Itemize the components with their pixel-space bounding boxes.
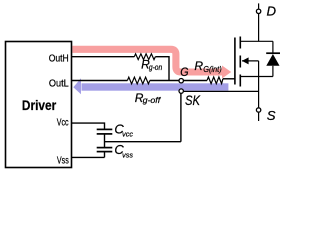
wire OutL <box>72 80 128 82</box>
capacitor C_vcc <box>97 128 113 130</box>
turn-on path arrowhead <box>222 66 231 79</box>
svg-text:g-on: g-on <box>149 63 163 72</box>
terminal D <box>256 9 260 13</box>
wire OutL to node G <box>150 80 207 82</box>
svg-text:vss: vss <box>122 150 133 159</box>
MOSFET channel segment middle <box>239 56 241 68</box>
MOSFET body arrow <box>242 57 249 64</box>
source kelvin wire <box>184 90 259 92</box>
wire junction vertical <box>168 56 170 81</box>
svg-text:Driver: Driver <box>22 97 57 113</box>
wire Vss <box>72 156 105 158</box>
body diode anode vertical <box>272 66 274 77</box>
wire drain stub above terminal <box>258 3 260 8</box>
wire C_vcc to midpoint <box>104 134 106 147</box>
svg-text:vcc: vcc <box>122 130 133 139</box>
svg-text:G(int): G(int) <box>203 65 222 74</box>
MOSFET gate bar <box>234 38 236 85</box>
body diode cathode bar <box>266 52 280 54</box>
node SK <box>179 89 183 93</box>
svg-text:OutH: OutH <box>49 54 69 65</box>
svg-text:D: D <box>267 4 277 19</box>
wire source stub below terminal <box>258 113 260 121</box>
node G <box>179 79 183 83</box>
MOSFET channel segment bottom <box>239 75 241 87</box>
wire C_vss to Vss <box>104 152 106 157</box>
wire gate lead <box>223 78 235 80</box>
capacitor C_vss <box>97 147 113 149</box>
MOSFET source bus <box>240 76 273 78</box>
resistor R_g-on <box>134 54 155 60</box>
terminal S <box>256 108 260 112</box>
wire source vertical <box>258 61 260 108</box>
turn-off gate current path (blue highlight) <box>82 83 229 90</box>
svg-text:G: G <box>180 65 188 79</box>
turn-off path arrowhead <box>73 78 81 94</box>
svg-text:Vcc: Vcc <box>57 117 69 128</box>
svg-text:SK: SK <box>185 92 201 108</box>
wire OutH <box>72 56 135 58</box>
MOSFET channel segment top <box>239 37 241 49</box>
svg-text:Vss: Vss <box>57 155 69 166</box>
wire Vcc <box>72 123 105 129</box>
resistor R_G(int) <box>207 77 223 84</box>
MOSFET drain bus <box>240 40 273 42</box>
body diode triangle <box>266 54 279 66</box>
svg-text:S: S <box>267 108 276 123</box>
svg-text:g-off: g-off <box>143 96 161 105</box>
wire SK vertical <box>180 93 182 141</box>
svg-text:R: R <box>194 59 203 73</box>
turn-on gate current path (red highlight) <box>72 49 222 72</box>
MOSFET body line with arrow <box>242 60 259 62</box>
wire decoupling midpoint to SK <box>105 141 181 143</box>
body diode cathode vertical <box>272 41 274 53</box>
resistor R_g-off <box>127 77 149 84</box>
wire drain vertical <box>258 14 260 41</box>
svg-text:OutL: OutL <box>49 79 69 90</box>
wire OutH to junction <box>155 56 169 58</box>
driver IC box <box>6 42 72 168</box>
